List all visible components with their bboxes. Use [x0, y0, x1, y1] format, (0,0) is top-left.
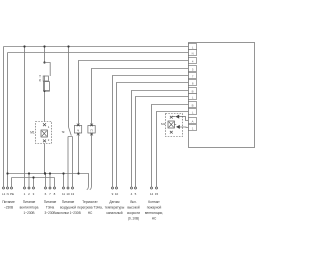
svg-text:15: 15: [155, 192, 159, 196]
svg-text:тк: тк: [62, 130, 65, 134]
svg-text:Питание: Питание: [23, 200, 36, 204]
circle 7: [49, 187, 51, 189]
svg-text:НС: НС: [152, 217, 157, 221]
terminal t12: [189, 125, 197, 131]
circle 9: [112, 187, 114, 189]
controller terminal boxes: [189, 44, 197, 131]
svg-text:Датчик: Датчик: [109, 200, 120, 204]
pressure box1: [74, 126, 81, 134]
svg-text:вентилятора: вентилятора: [20, 206, 39, 210]
M2 inner box: [168, 121, 174, 128]
controller big box: [189, 43, 255, 148]
svg-text:НС: НС: [88, 211, 93, 215]
hook E2: [90, 185, 92, 190]
svg-text:Вкл.: Вкл.: [130, 200, 136, 204]
wire switch out a: [67, 137, 69, 187]
wire input1 down: [24, 47, 26, 187]
wire terminal7: [132, 91, 189, 187]
wire L1 down: [3, 47, 5, 187]
terminal t3: [189, 58, 197, 64]
svg-text:3: 3: [33, 192, 35, 196]
wire terminal8: [136, 97, 189, 187]
svg-text:N: N: [192, 52, 194, 56]
wire term2 drop: [28, 174, 30, 187]
svg-text:3~230В: 3~230В: [44, 211, 55, 215]
svg-text:П: П: [91, 129, 93, 133]
svg-text:ТЭНа: ТЭНа: [46, 206, 55, 210]
wire heater line: [45, 47, 46, 187]
breaker body: [43, 82, 49, 91]
wire terminal10: [157, 112, 189, 187]
svg-text:10: 10: [66, 192, 70, 196]
svg-text:канальный: канальный: [106, 211, 122, 215]
svg-text:воздушной: воздушной: [60, 206, 76, 210]
svg-text:14: 14: [150, 192, 154, 196]
svg-text:(0..10В): (0..10В): [128, 217, 139, 221]
svg-text:скорости: скорости: [127, 211, 140, 215]
svg-text:вентиляции,: вентиляции,: [145, 211, 163, 215]
svg-text:Питание: Питание: [62, 200, 75, 204]
terminal t4: [189, 66, 197, 72]
svg-text:~230В: ~230В: [4, 206, 13, 210]
svg-text:В: В: [192, 90, 194, 94]
circle N: [7, 187, 9, 189]
damper actuator M2 dashed box: [166, 114, 183, 137]
terminal t5: [189, 73, 197, 79]
pin number labels: [2, 192, 158, 196]
circle 10b: [116, 187, 118, 189]
svg-text:К: К: [39, 78, 41, 82]
wire N top: [8, 53, 189, 187]
svg-text:В: В: [192, 104, 194, 108]
circle 2: [28, 187, 30, 189]
terminal L: [189, 44, 197, 50]
svg-text:Питание: Питание: [44, 200, 57, 204]
M1 inner box: [41, 130, 47, 137]
M1 inner glyph: [42, 131, 47, 136]
svg-text:А: А: [192, 120, 194, 124]
M1 terminal x bottom: [43, 140, 46, 143]
hook E1: [87, 185, 89, 190]
svg-text:9: 9: [112, 192, 114, 196]
circle 15: [156, 187, 158, 189]
terminal t8: [189, 94, 197, 100]
wire term11 drop: [63, 174, 65, 187]
circle 14: [151, 187, 153, 189]
M2 wire links inside: [172, 117, 177, 125]
box1 terminal x top: [77, 124, 80, 127]
breaker QF bypass loop: [45, 63, 51, 92]
wire terminal4 to box2: [92, 69, 189, 186]
svg-text:заслонки 1~230В: заслонки 1~230В: [55, 211, 80, 215]
terminal t10: [189, 109, 197, 115]
terminal N: [189, 50, 197, 56]
circle 5: [135, 187, 137, 189]
wire PE bus lower: [12, 177, 55, 179]
circle 13: [72, 187, 74, 189]
circle 10: [67, 187, 69, 189]
circle 3: [33, 187, 35, 189]
svg-text:перегрева ТЭНа,: перегрева ТЭНа,: [77, 206, 102, 210]
circle L1: [3, 187, 5, 189]
bottom description labels: [2, 200, 163, 221]
bottom terminal circles: [3, 187, 158, 189]
svg-text:11: 11: [62, 192, 65, 196]
heater M1 dashed box: [36, 122, 52, 144]
M2 terminal x top: [170, 116, 173, 119]
svg-text:6: 6: [45, 192, 47, 196]
terminal t6: [189, 80, 197, 86]
svg-text:8: 8: [54, 192, 56, 196]
svg-text:L1: L1: [2, 192, 6, 196]
svg-text:5: 5: [135, 192, 137, 196]
terminal chars: [192, 46, 194, 131]
M2 arrow 1: [175, 115, 179, 119]
svg-text:1: 1: [24, 192, 26, 196]
wire term3 drop: [33, 178, 35, 187]
switch blade S1: [68, 127, 73, 137]
circle PE: [11, 187, 13, 189]
svg-text:10: 10: [115, 192, 119, 196]
wire damper out2: [180, 126, 189, 129]
svg-text:2: 2: [28, 192, 30, 196]
wire PE down: [11, 178, 13, 187]
svg-text:М1: М1: [30, 130, 35, 134]
terminal t9: [189, 102, 197, 108]
svg-text:7: 7: [49, 192, 51, 196]
M1 terminal x top: [43, 123, 46, 126]
svg-text:температуры: температуры: [105, 206, 125, 210]
wire term8 drop: [54, 178, 56, 187]
box2 terminal x top: [90, 124, 93, 127]
circle 1: [24, 187, 26, 189]
breaker contact block: [43, 76, 48, 81]
junction dots: [6, 45, 79, 178]
terminal t11: [189, 118, 197, 124]
svg-text:13: 13: [71, 192, 75, 196]
pressure box2: [88, 126, 95, 134]
wire switch out b: [72, 137, 74, 187]
svg-text:Питание: Питание: [2, 200, 15, 204]
box2 terminal x bottom: [90, 133, 93, 136]
M2 arrow 2: [176, 125, 180, 129]
svg-text:высокой: высокой: [127, 206, 140, 210]
wire terminal5 to sensor: [113, 76, 189, 187]
wire switch line: [68, 47, 70, 128]
svg-text:N: N: [7, 192, 9, 196]
wire term7 drop: [49, 174, 51, 187]
svg-text:4: 4: [131, 192, 133, 196]
wire terminal6 to sensor: [117, 83, 189, 187]
svg-text:1~230В: 1~230В: [23, 211, 34, 215]
circle 4: [131, 187, 133, 189]
wire L phase bus top: [4, 46, 189, 48]
wire terminal3 to box1: [79, 61, 189, 174]
circle 6: [45, 187, 47, 189]
svg-text:1: 1: [48, 125, 50, 129]
svg-text:PE: PE: [10, 192, 14, 196]
M2 inner glyph: [169, 122, 174, 127]
svg-text:Ч: Ч: [77, 129, 79, 133]
wire N bus lower: [8, 174, 89, 186]
terminal t7: [189, 88, 197, 94]
svg-text:2: 2: [48, 138, 50, 142]
circle 8: [54, 187, 56, 189]
box1 terminal x bottom: [77, 133, 80, 136]
wire terminal9: [152, 105, 189, 187]
svg-text:М2: М2: [161, 122, 166, 126]
svg-text:пожарной: пожарной: [147, 206, 162, 210]
svg-text:Термостат: Термостат: [82, 200, 98, 204]
svg-text:Контакт: Контакт: [148, 200, 160, 204]
M2 terminal x bottom: [170, 131, 173, 134]
wire damper out1: [179, 117, 189, 121]
circle 11: [63, 187, 65, 189]
